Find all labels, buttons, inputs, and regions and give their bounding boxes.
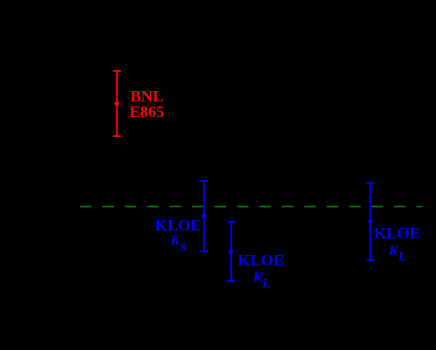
marker KLOE KS (blue point)	[202, 214, 207, 219]
error bar BNL E865 (red)	[113, 71, 121, 136]
reference dashed line (green)	[80, 206, 423, 208]
label KLOE KS	[155, 218, 201, 255]
label BNL E865	[129, 88, 164, 121]
marker BNL E865 (red point)	[115, 101, 120, 106]
marker KLOE KL middle (blue point)	[229, 249, 234, 254]
svg-text:KLOE: KLOE	[155, 218, 201, 235]
label KLOE KL right	[374, 226, 420, 264]
error bar KLOE KS (blue)	[200, 181, 208, 252]
marker KLOE KL right (blue point)	[368, 219, 373, 224]
svg-text:BNL: BNL	[130, 88, 163, 105]
error bar KLOE KL right (blue)	[366, 183, 374, 260]
svg-text:KLOE: KLOE	[374, 226, 420, 243]
label KLOE KL middle	[238, 252, 284, 290]
error bar KLOE KL middle (blue)	[227, 222, 235, 281]
svg-text:E865: E865	[129, 104, 164, 121]
svg-text:KLOE: KLOE	[238, 252, 284, 269]
